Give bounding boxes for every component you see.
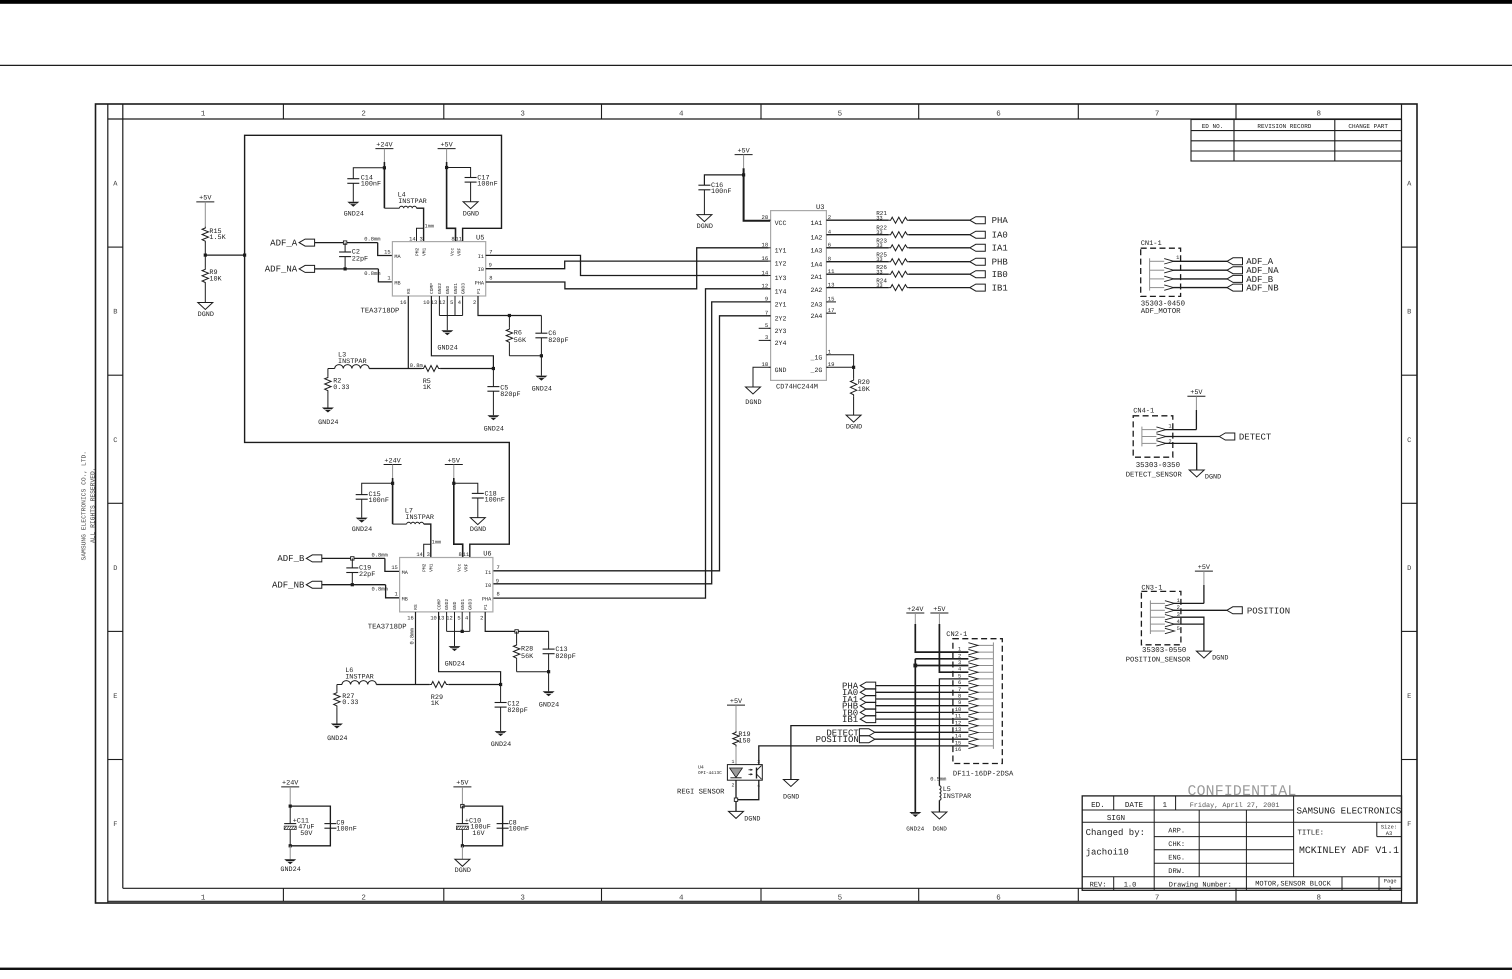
revision record table bbox=[1191, 120, 1402, 162]
svg-text:8: 8 bbox=[1316, 110, 1321, 119]
svg-text:PM2: PM2 bbox=[414, 247, 420, 256]
wire bbox=[392, 483, 394, 524]
port ADF_NA bbox=[1227, 267, 1243, 274]
svg-text:14: 14 bbox=[409, 236, 415, 242]
svg-text:2Y3: 2Y3 bbox=[775, 328, 787, 335]
wire pin10 COMP bbox=[439, 612, 501, 685]
svg-text:Friday, April 27, 2001: Friday, April 27, 2001 bbox=[1190, 802, 1280, 810]
svg-text:9: 9 bbox=[489, 263, 492, 269]
svg-text:GND24: GND24 bbox=[318, 419, 338, 427]
ground GND24 bbox=[347, 202, 359, 207]
svg-text:1K: 1K bbox=[423, 384, 432, 392]
svg-text:GND24: GND24 bbox=[437, 345, 457, 353]
svg-text:U4: U4 bbox=[698, 765, 704, 771]
node junction bbox=[508, 314, 511, 317]
wire REGI collector to CN2 pin16 bbox=[759, 746, 969, 765]
wire bbox=[461, 787, 463, 806]
svg-text:8: 8 bbox=[451, 236, 454, 242]
svg-text:1A4: 1A4 bbox=[811, 261, 823, 268]
wire bbox=[204, 202, 206, 227]
resistor R9 10K bbox=[202, 268, 208, 284]
svg-text:7: 7 bbox=[489, 249, 492, 255]
wire CN1 pin2 bbox=[1173, 269, 1227, 271]
svg-text:IA0: IA0 bbox=[992, 231, 1008, 241]
wire bbox=[383, 149, 385, 162]
svg-text:1.5K: 1.5K bbox=[209, 234, 226, 242]
svg-text:SIGN: SIGN bbox=[1107, 814, 1125, 823]
ground DGND bbox=[932, 812, 947, 819]
svg-text:33: 33 bbox=[876, 269, 882, 275]
svg-text:0.8mm: 0.8mm bbox=[372, 587, 388, 593]
wire bbox=[876, 711, 969, 713]
ground GND24 bbox=[356, 518, 368, 523]
svg-text:1: 1 bbox=[1176, 255, 1179, 261]
inductor L5 INSTPAR bbox=[939, 786, 941, 801]
svg-text:ED.: ED. bbox=[1091, 802, 1105, 810]
svg-text:1: 1 bbox=[387, 276, 390, 282]
svg-text:PHA: PHA bbox=[992, 216, 1009, 226]
inductor L7 INSTPAR bbox=[393, 523, 407, 525]
wire bbox=[336, 707, 338, 723]
svg-text:TITLE:: TITLE: bbox=[1298, 829, 1325, 837]
wire bbox=[383, 168, 385, 208]
IC U3 CD74HC244M body bbox=[759, 204, 836, 392]
wire bbox=[508, 344, 510, 356]
capacitor C6 820pF bbox=[540, 316, 542, 334]
svg-text:REVISION RECORD: REVISION RECORD bbox=[1257, 123, 1311, 130]
wire bbox=[327, 392, 329, 408]
svg-text:50V: 50V bbox=[300, 830, 313, 838]
capacitor C10 electrolytic bbox=[461, 806, 463, 824]
wire bbox=[315, 242, 378, 244]
node junction bbox=[540, 354, 543, 357]
svg-text:PHA: PHA bbox=[475, 280, 485, 286]
svg-text:1Y3: 1Y3 bbox=[775, 275, 787, 282]
resistor R19 150 bbox=[733, 731, 739, 747]
svg-text:14: 14 bbox=[761, 269, 768, 276]
svg-text:ADF_NB: ADF_NB bbox=[1246, 284, 1279, 294]
svg-text:6: 6 bbox=[996, 110, 1001, 119]
wire VRF tap bbox=[205, 254, 244, 256]
svg-text:MCKINLEY ADF V1.1: MCKINLEY ADF V1.1 bbox=[1299, 845, 1399, 856]
svg-text:GND24: GND24 bbox=[539, 701, 559, 709]
node junction bbox=[289, 844, 292, 847]
resistor R25 33 bbox=[826, 261, 888, 263]
wire pin3 DGND bbox=[1165, 443, 1196, 470]
wire DGND pin13 bbox=[791, 726, 969, 780]
svg-text:GND2: GND2 bbox=[444, 599, 450, 610]
svg-text:GND24: GND24 bbox=[491, 741, 511, 749]
bottom rule bar bbox=[0, 968, 1512, 970]
wire pin4 DGND bbox=[1174, 624, 1204, 651]
svg-text:33: 33 bbox=[876, 257, 882, 263]
wire cap loop bbox=[462, 806, 502, 846]
resistor R15 1.5K bbox=[202, 227, 208, 243]
svg-text:ADF_NA: ADF_NA bbox=[265, 265, 298, 275]
svg-text:ADF_B: ADF_B bbox=[277, 554, 305, 564]
ground DGND bbox=[846, 415, 861, 422]
svg-text:22pF: 22pF bbox=[359, 571, 375, 579]
wire pin14 jog bbox=[424, 544, 431, 557]
svg-text:IB0: IB0 bbox=[992, 270, 1008, 280]
svg-text:COMP: COMP bbox=[429, 283, 435, 294]
svg-text:1Y4: 1Y4 bbox=[775, 288, 787, 295]
svg-text:RS: RS bbox=[413, 604, 419, 610]
svg-text:5: 5 bbox=[450, 300, 453, 306]
node junction bbox=[734, 798, 737, 801]
resistor R5 1K bbox=[422, 366, 440, 372]
svg-text:MB: MB bbox=[402, 596, 408, 602]
frame zone border bbox=[122, 104, 124, 888]
svg-text:GND24: GND24 bbox=[344, 210, 364, 218]
wire bbox=[477, 498, 479, 518]
svg-text:VM1: VM1 bbox=[422, 247, 428, 256]
node junction bbox=[289, 805, 292, 808]
wire bbox=[461, 846, 463, 860]
node junction bbox=[913, 664, 917, 668]
wire pin10 COMP bbox=[431, 296, 493, 369]
node junction bbox=[852, 366, 855, 369]
svg-text:5: 5 bbox=[838, 895, 843, 903]
wire U5 out1 to U3 1Y3 bbox=[486, 255, 769, 275]
node junction bbox=[492, 367, 495, 370]
svg-text:_2G: _2G bbox=[810, 367, 823, 374]
wire U3 2Y2 to U6 out1 bbox=[493, 316, 771, 571]
wire VCC feed bbox=[744, 168, 771, 221]
op-amp U5 TEA3718DP body bbox=[361, 235, 493, 316]
svg-text:2Y2: 2Y2 bbox=[775, 315, 787, 322]
wire bbox=[446, 149, 448, 162]
port IA1 bbox=[909, 247, 970, 249]
svg-text:IA1: IA1 bbox=[992, 244, 1008, 254]
svg-text:18: 18 bbox=[761, 242, 768, 249]
ground DGND bbox=[463, 202, 478, 209]
top black banner bar bbox=[0, 0, 1512, 4]
svg-text:U5: U5 bbox=[476, 235, 484, 243]
svg-text:I0: I0 bbox=[485, 583, 491, 589]
svg-text:820pF: 820pF bbox=[500, 391, 520, 399]
svg-text:GND24: GND24 bbox=[532, 386, 552, 394]
svg-text:Changed by:: Changed by: bbox=[1086, 828, 1145, 838]
port IA0 bbox=[909, 234, 970, 236]
svg-text:POSITION: POSITION bbox=[816, 735, 859, 745]
svg-text:GND: GND bbox=[452, 601, 458, 610]
svg-text:ADF_A: ADF_A bbox=[270, 238, 298, 248]
ground GND24 bbox=[543, 691, 555, 696]
svg-text:3: 3 bbox=[427, 552, 430, 558]
svg-text:ADF_NB: ADF_NB bbox=[272, 581, 305, 591]
wire bbox=[361, 499, 363, 517]
svg-text:3: 3 bbox=[520, 110, 525, 119]
svg-text:5: 5 bbox=[838, 111, 843, 119]
wire pin1 +5V bbox=[1165, 429, 1196, 431]
wire bbox=[876, 691, 969, 693]
svg-text:REGI SENSOR: REGI SENSOR bbox=[677, 788, 725, 796]
resistor R21 33 bbox=[826, 219, 888, 221]
ground GND24 bbox=[909, 812, 921, 817]
svg-text:PHB: PHB bbox=[992, 258, 1009, 268]
wire U5 out3 to U3 1Y1 bbox=[486, 248, 769, 289]
wire bbox=[289, 787, 291, 806]
resistor R20 10K bbox=[853, 367, 855, 378]
inductor L4 INSTPAR bbox=[384, 207, 399, 209]
resistor R27 0.33 bbox=[334, 691, 340, 707]
wire RS line bbox=[376, 684, 429, 686]
svg-text:DGND: DGND bbox=[1205, 473, 1221, 481]
connector CN2-1 DF11-16DP-2DSA bbox=[946, 631, 1014, 778]
svg-text:100nF: 100nF bbox=[711, 188, 731, 196]
node junction bbox=[515, 630, 518, 633]
wire pin16 RS bbox=[415, 612, 417, 685]
wire bbox=[453, 465, 455, 479]
wire bbox=[322, 584, 386, 586]
svg-text:8: 8 bbox=[1316, 894, 1321, 903]
svg-text:4: 4 bbox=[465, 616, 468, 622]
svg-text:100nF: 100nF bbox=[485, 496, 505, 504]
wire GND pin10 bbox=[753, 367, 771, 387]
svg-text:I1: I1 bbox=[478, 254, 484, 260]
svg-text:VRF: VRF bbox=[457, 247, 463, 256]
ground DGND bbox=[1189, 470, 1204, 477]
svg-text:IB1: IB1 bbox=[992, 283, 1008, 293]
svg-text:U3: U3 bbox=[816, 204, 824, 212]
wire bbox=[204, 242, 206, 255]
svg-text:DGND: DGND bbox=[846, 424, 862, 432]
svg-text:Vcc: Vcc bbox=[457, 563, 463, 572]
resistor R29 1K bbox=[430, 682, 448, 688]
wire bbox=[440, 368, 493, 370]
svg-text:Size:: Size: bbox=[1381, 825, 1397, 831]
zone row ticks and letters bbox=[108, 181, 1417, 830]
wire bbox=[447, 168, 471, 178]
svg-text:1mm: 1mm bbox=[425, 223, 434, 229]
capacitor C15 100nF bbox=[356, 494, 368, 496]
wire pin14 jog bbox=[417, 228, 424, 241]
svg-text:GND3: GND3 bbox=[468, 599, 474, 610]
svg-text:2Y4: 2Y4 bbox=[775, 340, 787, 347]
ground DGND bbox=[470, 518, 485, 525]
wire bbox=[1203, 571, 1205, 585]
svg-text:GND3: GND3 bbox=[460, 283, 466, 294]
svg-text:GND24: GND24 bbox=[484, 425, 504, 433]
svg-text:DGND: DGND bbox=[455, 867, 471, 875]
svg-text:INSTPAR: INSTPAR bbox=[398, 198, 427, 206]
wire bbox=[876, 698, 969, 700]
svg-text:11: 11 bbox=[456, 236, 462, 242]
wire CN1 pin1 bbox=[1173, 260, 1227, 262]
svg-text:56K: 56K bbox=[514, 337, 527, 345]
svg-text:CN4-1: CN4-1 bbox=[1133, 408, 1154, 416]
svg-text:100nF: 100nF bbox=[336, 826, 356, 834]
svg-text:DATE: DATE bbox=[1125, 802, 1144, 810]
wire bbox=[743, 155, 745, 169]
svg-text:2: 2 bbox=[361, 110, 366, 119]
svg-text:1A2: 1A2 bbox=[811, 234, 823, 241]
svg-text:COMP: COMP bbox=[436, 599, 442, 610]
svg-text:6: 6 bbox=[996, 894, 1001, 903]
svg-text:OPI-4413C: OPI-4413C bbox=[698, 771, 722, 776]
svg-text:C: C bbox=[1407, 437, 1411, 445]
svg-text:1: 1 bbox=[201, 895, 206, 903]
svg-text:GND24: GND24 bbox=[327, 735, 347, 743]
svg-text:CHANGE PART: CHANGE PART bbox=[1348, 123, 1388, 130]
svg-text:P1: P1 bbox=[483, 604, 489, 610]
svg-text:DETECT_SENSOR: DETECT_SENSOR bbox=[1126, 472, 1183, 480]
svg-text:10: 10 bbox=[430, 616, 436, 622]
ground GND24 bbox=[487, 415, 499, 420]
svg-text:10K: 10K bbox=[209, 275, 222, 283]
capacitor C12 820pF bbox=[500, 685, 502, 703]
svg-text:CONFIDENTIAL: CONFIDENTIAL bbox=[1188, 784, 1297, 800]
node junction bbox=[547, 670, 550, 673]
svg-text:100nF: 100nF bbox=[361, 180, 381, 188]
wire bbox=[876, 718, 969, 720]
svg-text:INSTPAR: INSTPAR bbox=[405, 514, 434, 522]
wire bbox=[417, 208, 424, 241]
wire bbox=[703, 190, 705, 215]
node junction bbox=[391, 482, 394, 485]
svg-text:10K: 10K bbox=[858, 386, 871, 394]
wire VRF loop net (U5 pin11 to U6 pin11) bbox=[245, 135, 510, 557]
svg-text:16: 16 bbox=[400, 300, 406, 306]
svg-text:0.8mm: 0.8mm bbox=[364, 271, 380, 277]
svg-text:PM2: PM2 bbox=[422, 563, 428, 572]
node junction bbox=[445, 166, 448, 169]
svg-text:0.5mm: 0.5mm bbox=[930, 777, 946, 783]
resistor R28 56K bbox=[516, 631, 518, 643]
svg-text:MOTOR,SENSOR BLOCK: MOTOR,SENSOR BLOCK bbox=[1255, 880, 1331, 888]
port ADF_NB bbox=[1227, 284, 1243, 291]
svg-text:CD74HC244M: CD74HC244M bbox=[776, 384, 818, 392]
ground DGND bbox=[697, 215, 712, 222]
svg-text:_1G: _1G bbox=[810, 354, 823, 361]
svg-text:4: 4 bbox=[458, 300, 461, 306]
svg-text:8: 8 bbox=[497, 592, 500, 598]
resistor R6 56K bbox=[508, 316, 510, 328]
svg-text:2: 2 bbox=[480, 616, 483, 622]
wire U3 1Y4 to U6 out3 bbox=[493, 289, 771, 598]
svg-text:Drawing Number:: Drawing Number: bbox=[1169, 880, 1232, 889]
svg-text:DRW.: DRW. bbox=[1168, 868, 1185, 876]
connector CN1-1 ADF_MOTOR bbox=[1141, 240, 1185, 316]
svg-text:DGND: DGND bbox=[470, 526, 486, 534]
opto sensor U4 body bbox=[698, 759, 762, 789]
svg-text:7: 7 bbox=[1155, 895, 1160, 903]
svg-text:A3: A3 bbox=[1386, 831, 1392, 837]
svg-text:1: 1 bbox=[732, 759, 735, 765]
wire bbox=[735, 747, 737, 765]
svg-text:2A1: 2A1 bbox=[811, 274, 823, 281]
wire gnd pins bus bbox=[446, 612, 448, 632]
resistor R24 33 bbox=[826, 287, 888, 289]
wire pin6 DGND filter bbox=[939, 679, 968, 786]
svg-text:C: C bbox=[113, 437, 117, 445]
svg-text:0.8mm: 0.8mm bbox=[410, 628, 416, 644]
svg-text:16: 16 bbox=[955, 747, 961, 753]
ground GND24 bbox=[449, 646, 461, 651]
svg-text:DGND: DGND bbox=[783, 793, 799, 801]
node junction bbox=[383, 166, 386, 169]
wire pin2 bbox=[1174, 609, 1227, 611]
capacitor C17 100nF bbox=[465, 177, 477, 179]
op-amp U6 TEA3718DP body bbox=[368, 550, 500, 631]
svg-text:33: 33 bbox=[876, 230, 882, 236]
svg-text:VCC: VCC bbox=[775, 220, 787, 227]
svg-text:35303-0350: 35303-0350 bbox=[1136, 462, 1180, 470]
capacitor C18 100nF bbox=[472, 492, 484, 494]
svg-text:12: 12 bbox=[446, 616, 452, 622]
capacitor C5 820pF bbox=[492, 369, 494, 387]
node junction bbox=[742, 173, 745, 176]
svg-text:MA: MA bbox=[394, 254, 401, 260]
svg-text:3: 3 bbox=[419, 236, 422, 242]
svg-text:0.33: 0.33 bbox=[342, 699, 358, 707]
zone column ticks and numbers bbox=[201, 104, 1321, 903]
svg-text:20: 20 bbox=[761, 214, 768, 221]
capacitor C8 100nF bbox=[502, 806, 504, 824]
svg-text:F: F bbox=[113, 821, 117, 829]
wire bbox=[322, 557, 385, 559]
svg-text:1Y1: 1Y1 bbox=[775, 247, 787, 254]
svg-text:2A2: 2A2 bbox=[811, 287, 823, 294]
svg-text:1mm: 1mm bbox=[432, 539, 441, 545]
node junction bbox=[243, 254, 246, 257]
resistor R22 33 bbox=[826, 234, 888, 236]
svg-text:CN2-1: CN2-1 bbox=[946, 631, 967, 639]
wire bbox=[328, 368, 335, 370]
wire bbox=[337, 684, 342, 686]
svg-text:33: 33 bbox=[876, 283, 882, 289]
svg-text:9: 9 bbox=[496, 578, 499, 584]
svg-text:Vcc: Vcc bbox=[449, 247, 455, 256]
wire pin1 +5V bbox=[1174, 602, 1204, 604]
svg-text:DETECT: DETECT bbox=[1239, 433, 1272, 443]
wire bbox=[352, 183, 354, 201]
wire CN1 pin3 bbox=[1173, 278, 1227, 280]
svg-text:0.8m: 0.8m bbox=[410, 363, 423, 369]
svg-text:B: B bbox=[1407, 309, 1411, 317]
svg-text:14: 14 bbox=[416, 552, 422, 558]
svg-text:820pF: 820pF bbox=[548, 337, 568, 345]
wire bbox=[470, 182, 472, 202]
svg-text:100nF: 100nF bbox=[369, 497, 389, 505]
wire _1G/_2G bbox=[826, 355, 853, 368]
svg-text:100nF: 100nF bbox=[477, 180, 497, 188]
wire bbox=[204, 255, 206, 268]
ground DGND bbox=[729, 811, 744, 818]
svg-text:E: E bbox=[1407, 693, 1411, 701]
port DETECT bbox=[1219, 433, 1235, 440]
svg-text:2Y1: 2Y1 bbox=[775, 302, 787, 309]
svg-text:2: 2 bbox=[732, 783, 735, 789]
wire U3 2Y1 to U6 out2 bbox=[493, 302, 771, 584]
port PHA bbox=[909, 219, 970, 221]
svg-text:CN1-1: CN1-1 bbox=[1141, 240, 1162, 248]
wire bbox=[424, 524, 431, 557]
svg-text:POSITION_SENSOR: POSITION_SENSOR bbox=[1126, 657, 1191, 665]
svg-text:5: 5 bbox=[1177, 626, 1180, 632]
svg-text:MB: MB bbox=[394, 280, 400, 286]
svg-text:Page: Page bbox=[1384, 879, 1397, 885]
wire bbox=[289, 846, 291, 860]
wire U5 out2 to U3 1Y2 bbox=[486, 261, 769, 269]
wire pin2 P1 bbox=[485, 612, 548, 632]
wire pin3 bbox=[1174, 617, 1204, 624]
svg-text:GND24: GND24 bbox=[352, 526, 372, 534]
node junction bbox=[343, 241, 346, 244]
svg-text:REV:: REV: bbox=[1090, 881, 1107, 889]
inductor L3 INSTPAR bbox=[335, 365, 369, 369]
